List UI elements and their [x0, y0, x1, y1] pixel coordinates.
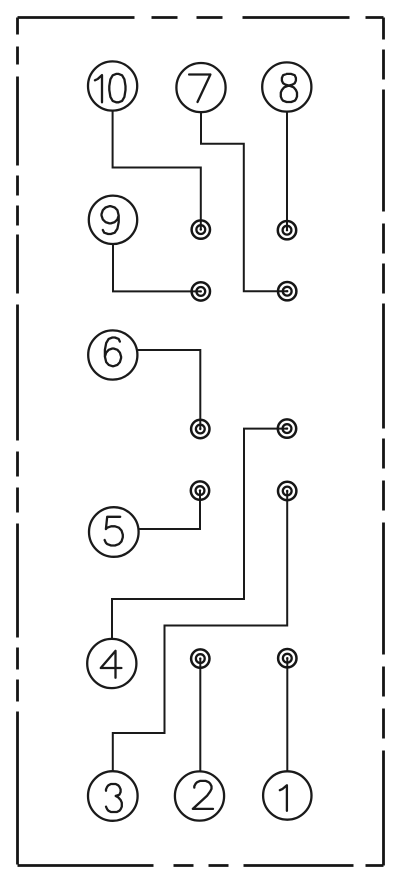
solder pin D2 (to 3): [278, 482, 296, 500]
terminal circle 2: [175, 771, 224, 820]
solder pin A2 (below 8): [278, 221, 296, 239]
label 7: [189, 75, 210, 103]
terminal circle 7: [176, 63, 225, 112]
solder pin C1 (from 6): [191, 420, 209, 438]
wire pin D2 to terminal 3: [113, 491, 287, 796]
terminal circle 6: [88, 330, 137, 379]
wire terminal 9 to pin B1: [113, 244, 201, 292]
terminal circle 3: [88, 771, 138, 821]
solder pin E1 (to 2): [191, 649, 209, 667]
wire pin E1 to terminal 2: [199, 659, 201, 796]
label 8: [281, 74, 297, 102]
terminal circle 1: [263, 771, 311, 819]
wire terminal 5 to pin D1: [114, 491, 200, 529]
label 2: [193, 781, 213, 809]
solder pin A1 (below 7): [192, 220, 210, 238]
label 6: [105, 338, 121, 367]
solder pin C2 (to 4): [278, 419, 296, 437]
terminal circle 5: [89, 507, 139, 557]
terminal circle 9: [89, 196, 137, 244]
wire terminal 10 to pin A1: [113, 110, 201, 230]
wire terminal 8 to pin A2: [286, 111, 288, 230]
label 5: [105, 517, 123, 546]
label 1: [280, 785, 287, 811]
label 10: [95, 74, 126, 102]
terminal circle 4: [87, 639, 136, 688]
solder pin E2 (to 1): [278, 649, 296, 667]
label 4: [101, 651, 122, 678]
solder pin D1 (from 5): [191, 481, 209, 499]
wire pin E2 to terminal 1: [286, 658, 288, 795]
solder pin B1 (from 9): [192, 282, 210, 300]
wire pin C2 to terminal 4: [112, 429, 287, 664]
solder pin B2 (from 7): [278, 282, 296, 300]
terminal circle 10: [88, 61, 137, 110]
label 3: [106, 784, 122, 812]
terminal circle 8: [262, 62, 311, 111]
wire terminal 7 to pin B2: [201, 112, 287, 291]
wire terminal 6 to pin C1: [113, 350, 201, 429]
label 9: [102, 206, 119, 234]
